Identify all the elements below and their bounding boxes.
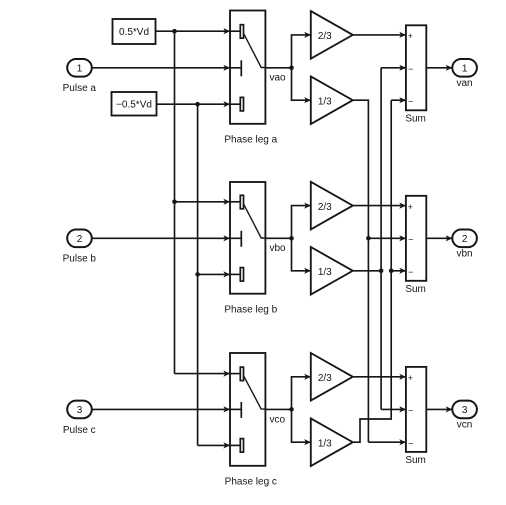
svg-text:+: + <box>408 373 413 383</box>
switch block Phase leg c <box>230 353 265 466</box>
svg-text:1/3: 1/3 <box>318 97 332 108</box>
svg-text:−: − <box>408 267 413 277</box>
svg-text:2/3: 2/3 <box>318 373 332 384</box>
wire -0.5*Vd to Phase leg a input 3 <box>157 103 231 105</box>
svg-text:3: 3 <box>462 405 468 416</box>
wire 2/3 b to Sum <box>353 205 406 207</box>
wire vbo output <box>265 237 291 239</box>
junction 0.5*Vd tee to leg b <box>172 200 177 205</box>
wire 2/3 a to Sum <box>353 34 406 36</box>
wire 1/3 c to Sum b input 3 <box>391 270 406 272</box>
wire vao to 1/3 gain <box>292 68 311 100</box>
svg-text:Phase leg b: Phase leg b <box>224 304 277 315</box>
wire 1/3 b output <box>353 270 381 272</box>
Phase leg b top contact <box>240 195 243 209</box>
input port 2 Pulse b <box>67 230 92 248</box>
wire vbo to 1/3 gain <box>292 238 311 270</box>
wire 0.5*Vd to Phase leg a input 1 <box>156 30 231 32</box>
svg-text:vbo: vbo <box>270 243 287 254</box>
svg-text:0.5*Vd: 0.5*Vd <box>119 27 149 38</box>
svg-text:van: van <box>456 78 472 89</box>
svg-text:Pulse a: Pulse a <box>63 83 97 94</box>
wire Pulse b to Phase leg b input 2 <box>92 237 230 239</box>
input port 3 Pulse c <box>67 401 92 419</box>
wire vco to 2/3 gain <box>292 377 311 410</box>
junction vao <box>289 66 294 71</box>
gain 1/3 phase c <box>311 418 353 466</box>
Phase leg b input stubs <box>230 201 240 203</box>
wire Sum c to output port <box>426 408 452 410</box>
svg-text:2/3: 2/3 <box>318 31 332 42</box>
Phase leg c bottom contact <box>240 439 243 453</box>
svg-text:−: − <box>408 235 413 245</box>
wire 1/3 a output down line <box>353 100 369 442</box>
wire 0.5*Vd to Phase leg c input 1 <box>175 373 231 375</box>
output port 2 vbn <box>452 230 477 248</box>
gain 2/3 phase c <box>311 353 353 401</box>
svg-text:2: 2 <box>77 234 83 245</box>
svg-text:Phase leg a: Phase leg a <box>224 134 277 145</box>
junction vbo <box>289 236 294 241</box>
Phase leg a switch arm <box>244 33 266 67</box>
svg-text:1/3: 1/3 <box>318 439 332 450</box>
junction 0.5*Vd tee <box>172 29 177 34</box>
output port 3 vcn <box>452 401 477 419</box>
constant block -0.5*Vd <box>112 92 157 116</box>
Phase leg c middle contact <box>240 402 242 418</box>
wire 1/3 b to Sum a input 2 <box>381 67 406 69</box>
wire Sum a to output port <box>426 67 452 69</box>
svg-text:1/3: 1/3 <box>318 267 332 278</box>
svg-text:Sum: Sum <box>405 284 426 295</box>
gain 2/3 phase b <box>311 182 353 230</box>
switch block Phase leg b <box>230 182 265 294</box>
junction -0.5*Vd tee <box>195 102 200 107</box>
wire 0.5*Vd to Phase leg b input 1 <box>175 201 231 203</box>
svg-text:−: − <box>408 96 413 106</box>
svg-text:vco: vco <box>270 414 286 425</box>
svg-text:+: + <box>408 202 413 212</box>
sum block Sum c <box>406 367 426 452</box>
Phase leg c top contact <box>240 367 243 381</box>
svg-text:−: − <box>408 438 413 448</box>
junction 1/3 c to Sum b <box>389 269 394 274</box>
wire 1/3 c to Sum a input 3 <box>391 99 406 101</box>
svg-text:vbn: vbn <box>456 249 472 260</box>
svg-text:Sum: Sum <box>405 113 426 124</box>
junction -0.5*Vd tee to leg b <box>195 272 200 277</box>
wire 1/3 b to Sum c input 2 <box>381 408 406 410</box>
junction vco <box>289 407 294 412</box>
Phase leg c input stubs <box>230 373 240 375</box>
svg-text:3: 3 <box>77 405 83 416</box>
svg-text:vao: vao <box>270 73 287 84</box>
input port 1 Pulse a <box>67 59 92 77</box>
svg-text:2/3: 2/3 <box>318 202 332 213</box>
svg-text:+: + <box>408 31 413 41</box>
sum block Sum a <box>406 25 426 110</box>
sum block Sum b <box>406 196 426 281</box>
svg-text:1: 1 <box>77 63 83 74</box>
svg-text:−: − <box>408 406 413 416</box>
Phase leg b bottom contact <box>240 268 243 282</box>
wire -0.5*Vd to Phase leg c input 3 <box>198 444 230 446</box>
wire vco to 1/3 gain <box>292 409 311 442</box>
Phase leg a bottom contact <box>240 97 243 111</box>
svg-text:Pulse b: Pulse b <box>63 254 97 265</box>
wire Pulse c to Phase leg c input 2 <box>92 408 230 410</box>
switch block Phase leg a <box>230 11 265 124</box>
gain 2/3 phase a <box>311 11 353 59</box>
svg-text:−0.5*Vd: −0.5*Vd <box>116 99 152 110</box>
junction 1/3 a to Sum b <box>366 236 371 241</box>
gain 1/3 phase a <box>311 76 353 124</box>
wire vao output <box>265 67 291 69</box>
wire 2/3 c to Sum <box>353 376 406 378</box>
Phase leg a input stubs <box>230 30 240 32</box>
wire 1/3 a to Sum c input 3 <box>368 441 406 443</box>
svg-text:Sum: Sum <box>405 455 426 466</box>
svg-text:vcn: vcn <box>457 420 473 431</box>
output port 1 van <box>452 59 477 77</box>
constant block 0.5*Vd <box>113 19 156 44</box>
svg-text:Phase leg c: Phase leg c <box>225 476 277 487</box>
wire 0.5*Vd distribution vertical <box>174 31 176 373</box>
Phase leg b middle contact <box>240 231 242 247</box>
Phase leg c switch arm <box>244 376 266 410</box>
wire 1/3 a to Sum b input 2 <box>368 237 406 239</box>
Phase leg a top contact <box>240 25 243 39</box>
wire 1/3 c output reroute <box>353 100 391 442</box>
wire vbo to 2/3 gain <box>292 206 311 239</box>
wire 1/3 b vertical line <box>380 68 382 410</box>
wire vco output <box>265 408 291 410</box>
svg-text:−: − <box>408 64 413 74</box>
svg-text:2: 2 <box>462 234 468 245</box>
wire -0.5*Vd distribution vertical <box>197 104 199 445</box>
svg-text:Pulse c: Pulse c <box>63 425 96 436</box>
Phase leg a middle contact <box>240 60 242 76</box>
junction 1/3 b <box>379 269 384 274</box>
gain 1/3 phase b <box>311 247 353 295</box>
wire vao to 2/3 gain <box>292 35 311 68</box>
Phase leg b switch arm <box>244 204 266 238</box>
wire Pulse a to Phase leg a input 2 <box>92 67 230 69</box>
svg-text:1: 1 <box>462 63 468 74</box>
wire Sum b to output port <box>426 237 452 239</box>
wire -0.5*Vd to Phase leg b input 3 <box>198 273 230 275</box>
